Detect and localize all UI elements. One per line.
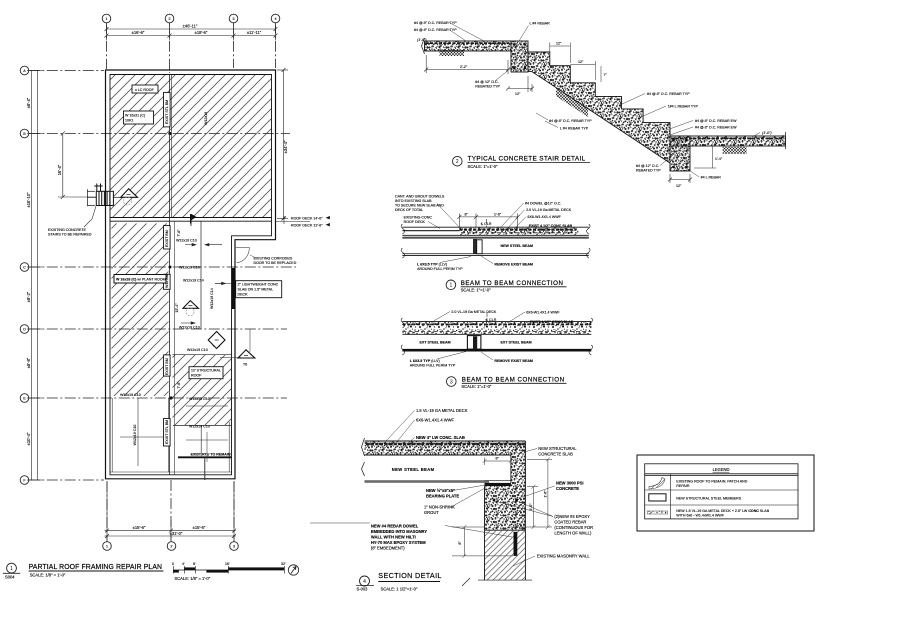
dim 8" and 1'-6" xyxy=(457,214,519,228)
grid line D horizontal xyxy=(29,328,287,330)
svg-text:15'-4": 15'-4" xyxy=(175,303,179,313)
earth hatch under stair soffit xyxy=(556,87,588,117)
svg-text:W12x19 C14: W12x19 C14 xyxy=(210,288,214,309)
svg-text:8': 8' xyxy=(193,562,196,566)
rebar dowel bar xyxy=(514,532,518,556)
grid circle 3 top xyxy=(229,14,238,23)
earth hatch under top slab xyxy=(440,50,465,57)
svg-text:S-003: S-003 xyxy=(357,587,369,592)
left break mark xyxy=(401,224,405,258)
svg-text:12": 12" xyxy=(578,60,584,64)
hatch region left strip xyxy=(112,224,169,397)
top landing beam xyxy=(511,41,528,72)
grid line 3 vertical xyxy=(233,23,235,68)
dim lines bottom-left bay xyxy=(137,398,139,466)
svg-text:L 6X3.5 TYP (LLV): L 6X3.5 TYP (LLV) xyxy=(410,359,440,363)
lightweight conc slab label box xyxy=(236,281,282,298)
bottom beam corner bars xyxy=(672,139,675,142)
svg-text:#4 @ 8" O.C. REBAR TYP: #4 @ 8" O.C. REBAR TYP xyxy=(647,92,690,96)
legend symbol row2: rectangle xyxy=(649,494,666,501)
svg-text:2: 2 xyxy=(169,17,171,21)
svg-text:±46'-11": ±46'-11" xyxy=(183,24,198,29)
door arc existing corroded door xyxy=(237,247,250,262)
grid circle B xyxy=(20,129,29,138)
svg-text:NEW 1.5 VL-19 GA METAL DECK +: NEW 1.5 VL-19 GA METAL DECK + 2.5" LW CO… xyxy=(676,509,769,513)
svg-text:6X6-W1.4X1.4 WWF: 6X6-W1.4X1.4 WWF xyxy=(416,418,454,423)
beam corner bars xyxy=(513,43,516,46)
svg-text:10K1: 10K1 xyxy=(125,119,133,123)
new steel beam web section xyxy=(473,239,477,254)
left break mark xyxy=(401,318,405,355)
grid circle 2 top xyxy=(165,14,174,23)
legend symbol row3: deck strip xyxy=(647,511,667,514)
svg-text:PARTIAL ROOF FRAMING REPAIR P: PARTIAL ROOF FRAMING REPAIR PLAN xyxy=(29,564,163,571)
svg-text:12": 12" xyxy=(556,42,562,46)
svg-text:6X6-W1.4X1.4 WWF: 6X6-W1.4X1.4 WWF xyxy=(526,311,560,315)
svg-text:32': 32' xyxy=(281,562,286,566)
svg-text:ROOF: ROOF xyxy=(191,374,202,378)
svg-text:AROUND FULL PERIM TYP: AROUND FULL PERIM TYP xyxy=(410,364,456,368)
svg-text:1'-6": 1'-6" xyxy=(494,213,502,217)
svg-text:BEAM TO BEAM CONNECTION: BEAM TO BEAM CONNECTION xyxy=(462,377,565,384)
misc dim marks lower mid xyxy=(186,329,250,462)
earth hatch under bottom slab xyxy=(723,147,747,154)
12' structural label box xyxy=(189,367,223,379)
bottom slab rebar dashes xyxy=(671,137,784,139)
svg-text:1'-6": 1'-6" xyxy=(543,490,547,498)
svg-text:EXT STEEL BEAM: EXT STEEL BEAM xyxy=(501,341,532,345)
centerline xyxy=(486,312,488,322)
svg-text:16': 16' xyxy=(225,562,230,566)
svg-text:SCALE: 1/8" = 1'-0": SCALE: 1/8" = 1'-0" xyxy=(30,573,66,578)
svg-text:1: 1 xyxy=(450,283,453,289)
svg-text:EXISTING CONC: EXISTING CONC xyxy=(404,216,433,220)
svg-text:#4 @ 8" O.C. REBAR EW: #4 @ 8" O.C. REBAR EW xyxy=(695,119,737,123)
bottom dimension line xyxy=(105,482,237,539)
bearing plate xyxy=(485,483,511,486)
node dot grid B x grid 2 xyxy=(168,132,171,135)
svg-text:W12x19 C10: W12x19 C10 xyxy=(176,239,197,243)
svg-text:DECK OF TOTAL: DECK OF TOTAL xyxy=(395,208,423,212)
grid circle 4 top xyxy=(271,14,280,23)
legend table xyxy=(645,464,798,519)
concrete infill block xyxy=(485,486,526,530)
dim 12 under bottom beam xyxy=(668,174,692,183)
svg-text:NEW STRUCTURAL STEEL MEMBERS: NEW STRUCTURAL STEEL MEMBERS xyxy=(676,497,741,501)
svg-text:4: 4 xyxy=(275,17,277,21)
grid line C horizontal xyxy=(29,266,296,268)
left dim 8 embed xyxy=(452,525,513,558)
svg-text:CONCRETE SLAB: CONCRETE SLAB xyxy=(538,452,573,457)
svg-text:NEW STRUCTURAL: NEW STRUCTURAL xyxy=(538,446,577,451)
svg-text:16'-4": 16'-4" xyxy=(57,164,62,175)
existing concrete stairs note xyxy=(48,228,92,237)
label box vertical EXIST STEEL BM top xyxy=(164,92,171,127)
stair annotations left xyxy=(414,21,550,89)
svg-text:REMOVE EXIST BEAM: REMOVE EXIST BEAM xyxy=(494,263,533,267)
new slab stipple band xyxy=(459,228,578,235)
svg-text:1'-0": 1'-0" xyxy=(529,503,533,511)
title: typical concrete stair detail xyxy=(453,156,463,166)
svg-text:NEW STEEL BEAM: NEW STEEL BEAM xyxy=(501,244,533,248)
svg-text:L 6X3.5 TYP (LLV): L 6X3.5 TYP (LLV) xyxy=(417,263,447,267)
right dimension line ±34'-4" xyxy=(277,68,288,221)
svg-text:#4 @ 8" O.C. REBAR TYP: #4 @ 8" O.C. REBAR TYP xyxy=(549,119,592,123)
svg-text:3: 3 xyxy=(233,545,235,549)
svg-text:2" LIGHTWEIGHT CONC: 2" LIGHTWEIGHT CONC xyxy=(238,283,279,287)
svg-text:EXISTING MASONRY WALL: EXISTING MASONRY WALL xyxy=(537,554,591,559)
stair annotations mid xyxy=(549,119,592,131)
svg-text:2.0 VL-19 Ga METAL DECK: 2.0 VL-19 Ga METAL DECK xyxy=(451,310,497,314)
arrow to lightweight slab xyxy=(215,282,232,284)
svg-text:7'-6": 7'-6" xyxy=(177,229,181,237)
grid circle F xyxy=(20,476,29,485)
slab rebar dashes xyxy=(366,443,525,445)
grid circle 2 bottom xyxy=(167,542,176,551)
svg-text:(CONTINUOUS FOR: (CONTINUOUS FOR xyxy=(554,525,593,530)
svg-text:1: 1 xyxy=(106,17,108,21)
plan annotations xyxy=(3,85,330,581)
svg-text:1#4 L REBAR TYP: 1#4 L REBAR TYP xyxy=(668,105,699,109)
svg-text:±10'-4": ±10'-4" xyxy=(26,432,31,445)
svg-text:NEW 3000 PSI: NEW 3000 PSI xyxy=(556,481,584,486)
notes top xyxy=(451,310,573,324)
beam line x=201 xyxy=(200,221,202,329)
svg-text:℄ CLR: ℄ CLR xyxy=(480,222,492,226)
label box LC ROOF xyxy=(132,85,158,93)
svg-text:±8'-4": ±8'-4" xyxy=(26,97,31,108)
slab band xyxy=(365,441,526,455)
left dimension line vertical xyxy=(27,71,42,481)
svg-text:WITH 6x6 - W1.4xW1.4 WWF: WITH 6x6 - W1.4xW1.4 WWF xyxy=(676,513,725,517)
bottom beam xyxy=(670,136,690,171)
svg-text:SCALE: 1"=1'-0": SCALE: 1"=1'-0" xyxy=(461,384,492,389)
right notes xyxy=(537,446,593,559)
svg-text:HY-70 MAX EPOXY SYSTEM: HY-70 MAX EPOXY SYSTEM xyxy=(371,540,426,545)
svg-text:4: 4 xyxy=(363,579,366,585)
svg-text:±16'-10": ±16'-10" xyxy=(26,192,31,207)
svg-text:STAIRS TO BE REPAIRED: STAIRS TO BE REPAIRED xyxy=(48,233,92,237)
leader from stairs note xyxy=(84,206,96,227)
svg-text:(8" EMBEDMENT): (8" EMBEDMENT) xyxy=(371,546,405,551)
svg-text:#4 @ 8" O.C. REBAR TYP: #4 @ 8" O.C. REBAR TYP xyxy=(414,21,457,25)
svg-text:1: 1 xyxy=(10,566,13,572)
top notes xyxy=(416,408,468,440)
top dimension line overall xyxy=(105,25,278,40)
legend symbol row1: hatched patch xyxy=(649,478,665,490)
grid circle 1 bottom xyxy=(103,542,112,551)
node dot grid E x grid 2 xyxy=(169,396,172,399)
svg-text:(1'-0"): (1'-0") xyxy=(762,131,772,135)
title: partial roof framing repair plan xyxy=(7,563,17,573)
svg-text:±34'-4": ±34'-4" xyxy=(283,140,288,153)
svg-text:±11'-11": ±11'-11" xyxy=(247,30,262,35)
grid line 4 vertical xyxy=(275,23,277,68)
svg-text:±8'-8": ±8'-8" xyxy=(26,357,31,368)
wall outline outer xyxy=(106,70,276,479)
svg-text:EXIST 4 1/2" CONC SLAB: EXIST 4 1/2" CONC SLAB xyxy=(530,320,574,324)
label box W16x26 plant xyxy=(124,111,154,124)
svg-text:EXISTING CORRODED: EXISTING CORRODED xyxy=(254,257,293,261)
svg-text:WALL WITH NEW HILTI: WALL WITH NEW HILTI xyxy=(371,535,416,540)
svg-text:W12x19 C10: W12x19 C10 xyxy=(189,397,210,401)
left slab break mark xyxy=(422,38,425,54)
black section cut marker xyxy=(190,214,197,224)
stair stepped slab band xyxy=(528,52,670,163)
svg-text:W12x19 C10: W12x19 C10 xyxy=(179,266,200,270)
svg-text:CANT. AND GROUT DOWELS: CANT. AND GROUT DOWELS xyxy=(395,195,445,199)
grid circle E xyxy=(20,394,29,403)
svg-text:12' STRUCTURAL: 12' STRUCTURAL xyxy=(191,369,221,373)
svg-text:NEW 4" LW CONC. SLAB: NEW 4" LW CONC. SLAB xyxy=(416,435,465,440)
svg-text:CONCRETE: CONCRETE xyxy=(556,486,579,491)
dim 2'-2" under top slab xyxy=(424,55,510,74)
rebar dash band xyxy=(459,229,576,231)
svg-text:(2)NEW #4 EPOXY: (2)NEW #4 EPOXY xyxy=(554,514,590,519)
roof area bottom wall xyxy=(110,217,272,219)
title: section detail xyxy=(360,576,370,586)
roof deck arrows xyxy=(326,216,331,219)
svg-text:SCALE: 1 1/2"=1'-0": SCALE: 1 1/2"=1'-0" xyxy=(381,587,418,592)
existing stairs plan symbol xyxy=(88,184,121,207)
interior vertical lines bottom bay xyxy=(111,398,113,472)
right notes xyxy=(525,202,573,228)
top landing slab xyxy=(425,41,512,51)
svg-text:SCALE: 1"=1'-0": SCALE: 1"=1'-0" xyxy=(468,164,499,169)
inner dim 16'-4" left of plan xyxy=(58,132,98,200)
grid line B horizontal xyxy=(29,133,290,135)
right break mark xyxy=(589,318,593,355)
black wall segment below grid C right side xyxy=(232,268,235,309)
svg-text:GROUT: GROUT xyxy=(424,510,439,515)
svg-text:ROOF DECK 12'-8": ROOF DECK 12'-8" xyxy=(291,224,323,228)
left note block xyxy=(395,195,445,225)
svg-text:EXIST STL BM: EXIST STL BM xyxy=(165,420,169,444)
svg-text:±15'-6": ±15'-6" xyxy=(193,525,206,530)
svg-text:INTO EXISTING SLAB: INTO EXISTING SLAB xyxy=(395,199,432,203)
masonry wall xyxy=(485,530,526,580)
right dims xyxy=(510,457,552,529)
grid circle 3 bottom xyxy=(230,542,239,551)
svg-text:W12x19: W12x19 xyxy=(204,112,208,125)
grid line 1 vertical xyxy=(29,23,296,542)
svg-text:7'-6": 7'-6" xyxy=(177,381,181,389)
stair leader lines top xyxy=(449,23,529,82)
svg-text:#4 @ 12" O.C.: #4 @ 12" O.C. xyxy=(475,80,498,84)
svg-text:0: 0 xyxy=(172,562,174,566)
svg-text:DECK: DECK xyxy=(238,293,249,297)
svg-text:2: 2 xyxy=(456,159,459,165)
rebar dash layer xyxy=(402,323,591,325)
svg-text:4': 4' xyxy=(182,562,185,566)
svg-text:±31'-0": ±31'-0" xyxy=(170,531,183,536)
grid line E horizontal xyxy=(29,397,287,399)
svg-text:EXIST STL BM: EXIST STL BM xyxy=(165,100,169,124)
splice plates xyxy=(467,336,481,350)
svg-text:x LC ROOF: x LC ROOF xyxy=(135,88,155,92)
dim 8" above column xyxy=(483,458,513,466)
concrete column strip xyxy=(511,441,526,530)
svg-text:2.0 VL-19 Ga METAL DECK: 2.0 VL-19 Ga METAL DECK xyxy=(526,208,572,212)
svg-text:L #4 REBAR TYP: L #4 REBAR TYP xyxy=(560,127,589,131)
svg-text:C: C xyxy=(23,266,26,270)
top slab rebar dashes xyxy=(426,42,511,44)
svg-text:BEAM TO BEAM CONNECTION: BEAM TO BEAM CONNECTION xyxy=(461,280,564,287)
svg-text:#4 @ 12" O.C.: #4 @ 12" O.C. xyxy=(636,164,659,168)
title: beam to beam connection 3 xyxy=(447,377,457,387)
tread dims 12" xyxy=(550,43,601,83)
grid line A horizontal xyxy=(29,70,104,72)
beam bottom flange thick line xyxy=(402,349,591,352)
svg-text:L #4 REBAR: L #4 REBAR xyxy=(530,22,551,26)
existing corroded door note xyxy=(254,257,297,266)
svg-text:W12x19 C10: W12x19 C10 xyxy=(120,393,141,397)
grid circle A xyxy=(20,66,29,75)
grid line 2 vertical xyxy=(169,23,171,73)
angle note xyxy=(410,359,456,368)
bottom landing slab xyxy=(670,136,785,146)
svg-text:EXIST BM: EXIST BM xyxy=(165,358,169,375)
svg-text:±15'-6": ±15'-6" xyxy=(133,525,146,530)
rebar dots xyxy=(493,499,496,502)
grid circle C xyxy=(20,263,29,272)
wall outline inner xyxy=(110,75,272,475)
keynote triangle at stairs xyxy=(121,189,138,198)
roof deck elevation notes xyxy=(276,221,311,223)
svg-text:S004: S004 xyxy=(5,574,15,579)
svg-text:#4 DOWEL @12" O.C.: #4 DOWEL @12" O.C. xyxy=(525,202,561,206)
svg-text:3: 3 xyxy=(450,379,453,385)
hatch region mid lower xyxy=(173,355,232,426)
right break mark xyxy=(587,224,591,258)
svg-text:SCALE: 1"=1'-0": SCALE: 1"=1'-0" xyxy=(461,288,492,293)
svg-text:EXT STEEL BEAM: EXT STEEL BEAM xyxy=(420,341,451,345)
svg-text:EXIST 4 1/2" CONC SLAB: EXIST 4 1/2" CONC SLAB xyxy=(529,224,573,228)
svg-text:T6: T6 xyxy=(243,363,247,367)
grid line F horizontal xyxy=(29,479,104,481)
small dim text verticals xyxy=(175,229,181,389)
svg-text:D: D xyxy=(23,328,26,332)
svg-text:TYPICAL CONCRETE STAIR DETAIL: TYPICAL CONCRETE STAIR DETAIL xyxy=(468,156,586,163)
svg-text:W12x19 C10: W12x19 C10 xyxy=(133,425,137,446)
slab stipple band xyxy=(402,322,591,334)
svg-text:REBATED TYP: REBATED TYP xyxy=(475,85,500,89)
svg-text:W12x19 C14: W12x19 C14 xyxy=(183,279,204,283)
beam line x=174.5 lower xyxy=(174,221,176,475)
svg-text:W12x19 C10: W12x19 C10 xyxy=(187,348,208,352)
interior line y=472.8 xyxy=(110,471,232,473)
svg-text:W12x19 C10: W12x19 C10 xyxy=(179,326,200,330)
vertical dims along grid2 corridor xyxy=(181,243,226,324)
label box W16x26 plant room xyxy=(114,275,166,284)
svg-text:REPAIR: REPAIR xyxy=(676,484,690,488)
svg-text:1" NON-SHRINK: 1" NON-SHRINK xyxy=(424,505,455,510)
hatch region main roof xyxy=(110,75,272,218)
svg-text:BEARING PLATE: BEARING PLATE xyxy=(426,494,459,499)
svg-text:ROOF DECK: ROOF DECK xyxy=(404,220,426,224)
svg-text:LENGTH OF WALL): LENGTH OF WALL) xyxy=(554,531,592,536)
left break mark xyxy=(362,438,365,456)
svg-text:#4 @ 8" O.C. REBAR TYP: #4 @ 8" O.C. REBAR TYP xyxy=(414,28,457,32)
right vert dim at bottom beam xyxy=(694,146,716,168)
right slab end tick xyxy=(784,132,786,149)
label box vertical exist bm 3 xyxy=(164,274,171,289)
svg-text:NEW ½"x5"x5": NEW ½"x5"x5" xyxy=(426,488,455,493)
svg-text:EXISTING CONCRETE: EXISTING CONCRETE xyxy=(48,228,87,232)
title: beam to beam connection 1 xyxy=(446,280,456,290)
svg-text:EXIST RTU TO REMAIN: EXIST RTU TO REMAIN xyxy=(191,453,231,457)
svg-text:AROUND FULL PERIM TYP: AROUND FULL PERIM TYP xyxy=(417,267,463,271)
grid circle D xyxy=(20,325,29,334)
svg-text:#4 @ 8" O.C. REBAR EW: #4 @ 8" O.C. REBAR EW xyxy=(695,126,737,130)
svg-text:SCALE: 1/8" = 1'-0": SCALE: 1/8" = 1'-0" xyxy=(175,576,211,581)
keynote diamond xyxy=(212,339,221,348)
svg-text:℄ CLR: ℄ CLR xyxy=(485,318,497,322)
svg-text:COATED REBAR: COATED REBAR xyxy=(554,520,586,525)
grid circle 1 top xyxy=(20,14,280,550)
svg-text:(1'-6"): (1'-6") xyxy=(417,38,427,42)
north arrow xyxy=(288,565,298,575)
svg-text:3: 3 xyxy=(233,17,235,21)
svg-text:EXISTING ROOF TO REMAIN. PATCH: EXISTING ROOF TO REMAIN. PATCH AND xyxy=(676,480,747,484)
svg-text:12": 12" xyxy=(676,184,682,188)
W12x19 beam tags xyxy=(120,112,214,429)
svg-text:2'-2": 2'-2" xyxy=(460,65,468,69)
svg-text:EMBEDDED INTO MASONRY: EMBEDDED INTO MASONRY xyxy=(371,529,427,534)
new steel beam xyxy=(365,481,490,483)
beam bottom flange line xyxy=(402,253,588,255)
svg-text:W 16x26 (C) w/ PLANT ROOM: W 16x26 (C) w/ PLANT ROOM xyxy=(116,278,166,282)
svg-text:SLAB ON 1.5" METAL: SLAB ON 1.5" METAL xyxy=(238,288,274,292)
svg-text:REMOVE EXIST BEAM: REMOVE EXIST BEAM xyxy=(494,359,533,363)
svg-text:6X6-W1.4X1.4 WWF: 6X6-W1.4X1.4 WWF xyxy=(528,215,562,219)
label box vertical exist bm 5 xyxy=(164,419,171,447)
svg-text:TO SECURE NEW SLAB AND: TO SECURE NEW SLAB AND xyxy=(395,204,444,208)
node dot grid C x grid 2 xyxy=(169,266,172,269)
svg-text:NEW STEEL BEAM: NEW STEEL BEAM xyxy=(392,467,435,472)
graphic scale bar xyxy=(173,566,284,574)
svg-text:2: 2 xyxy=(171,545,173,549)
svg-text:12": 12" xyxy=(515,92,521,96)
existing deck lines left xyxy=(402,226,588,228)
svg-text:1'-4": 1'-4" xyxy=(715,157,723,161)
label box vertical exist bm 2 xyxy=(164,226,171,249)
dim 12 under top beam xyxy=(506,76,534,92)
svg-text:W 16x31 (C): W 16x31 (C) xyxy=(125,114,145,118)
svg-text:REBATED TYP: REBATED TYP xyxy=(636,169,661,173)
svg-text:±16'-6": ±16'-6" xyxy=(132,30,145,35)
svg-text:EXIST BM: EXIST BM xyxy=(165,230,169,247)
grid 2 beam line through plan xyxy=(169,75,171,475)
keynote triangle mid plan xyxy=(183,301,199,309)
keynote triangle T6 xyxy=(238,350,255,358)
lower bay beam lines xyxy=(173,424,232,426)
svg-text:±18'-6": ±18'-6" xyxy=(195,30,208,35)
svg-text:LEGEND: LEGEND xyxy=(713,467,730,472)
angle note xyxy=(417,263,463,272)
stair annotations right xyxy=(636,92,772,180)
svg-text:SECTION DETAIL: SECTION DETAIL xyxy=(378,571,441,580)
grid bubble labels xyxy=(23,17,276,549)
svg-text:ROOF DECK 14'-6": ROOF DECK 14'-6" xyxy=(291,217,323,221)
left notes xyxy=(371,488,459,551)
label box vertical exist bm 4 xyxy=(164,355,171,376)
centerline xyxy=(486,219,488,229)
svg-text:1.5 VL-19 GA METAL DECK: 1.5 VL-19 GA METAL DECK xyxy=(416,408,468,413)
svg-text:±8'-2": ±8'-2" xyxy=(26,291,31,302)
svg-text:1: 1 xyxy=(106,545,108,549)
beam top flange line xyxy=(402,236,588,238)
